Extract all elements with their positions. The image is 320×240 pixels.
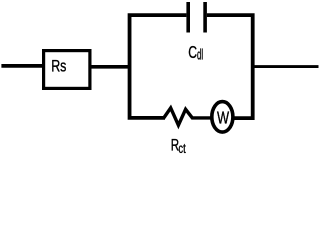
- svg-text:Rs: Rs: [51, 58, 66, 76]
- svg-text:W: W: [217, 109, 230, 128]
- capacitor C1 (Cdl) right plate: [203, 2, 207, 33]
- capacitor C1 (Cdl) left plate: [186, 2, 190, 33]
- wire top-left + left rail + wire bottom-left: [130, 15, 187, 118]
- label Cdl: [188, 43, 203, 64]
- Warburg element W (ellipse): [212, 102, 233, 133]
- wire from Rs to left node: [89, 65, 131, 69]
- svg-text:dl: dl: [197, 49, 203, 64]
- wire right output: [253, 65, 319, 68]
- svg-text:ct: ct: [178, 140, 186, 157]
- svg-text:C: C: [188, 43, 197, 63]
- label Rct: [171, 136, 186, 156]
- wire bottom-right + right rail + wire top-right: [207, 15, 253, 118]
- wire left input: [1, 64, 43, 68]
- resistor Rs (box): [44, 51, 90, 89]
- resistor R2 (Rct) zigzag: [164, 108, 212, 125]
